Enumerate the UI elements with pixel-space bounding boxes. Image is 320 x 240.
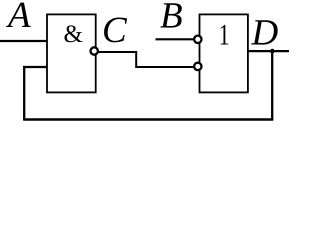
gate U2 (OR "1") body (200, 14, 248, 92)
svg-text:1: 1 (219, 19, 230, 52)
gate U1 output bubble (91, 47, 98, 54)
wire U1 lower input (23, 66, 47, 68)
feedback right vertical wire (271, 51, 273, 121)
wire A input (0, 40, 47, 42)
gate U2 upper input bubble (194, 36, 201, 43)
wire B input (156, 38, 194, 40)
svg-text:D: D (251, 13, 279, 54)
gate U1 (NAND) body (47, 14, 96, 92)
gate U2 lower input bubble (194, 63, 201, 70)
svg-text:B: B (160, 0, 183, 37)
junction dot on D wire (270, 49, 275, 54)
svg-text:C: C (102, 10, 128, 51)
feedback bottom wire (23, 118, 273, 121)
feedback left vertical wire (23, 66, 25, 120)
svg-text:&: & (64, 21, 83, 48)
wire D output (248, 50, 289, 52)
wire C to U2 lower input (98, 52, 194, 67)
svg-text:A: A (5, 0, 31, 36)
